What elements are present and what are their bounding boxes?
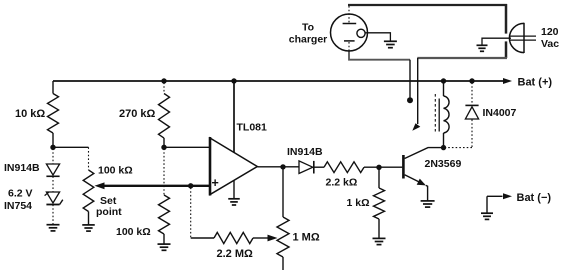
relay K1 coil [444,96,450,133]
wire R6 bottom lead [282,257,284,270]
arrow to Bat (-) [503,193,512,199]
transistor Q1 2N3569 base bar [402,155,405,179]
op-amp U1 TL081 triangle [210,138,257,195]
wire rail to relay coil [443,81,445,96]
svg-text:TL081: TL081 [237,122,268,134]
wire node B to op-amp inverting input [164,146,210,148]
connector J1 To charger (circle) [331,14,368,51]
wire node B down to R4 (dotted) [163,149,165,196]
wire D4 down (dotted) [471,120,473,148]
resistor R7 2.2 k [324,162,364,173]
potentiometer R6 1 M [277,217,289,257]
wire wiper to op-amp noninverting input (thick) [102,185,210,187]
wire AC outlet right vertical (lower) [505,41,508,58]
svg-text:10 kΩ: 10 kΩ [15,108,45,120]
wire op-amp output [257,166,299,168]
resistor R4 100 k [159,195,170,234]
wire rail to D4 (dotted) [471,83,473,105]
node rail at IN4007 [469,78,474,83]
svg-text:6.2 V: 6.2 V [8,188,33,200]
wire relay moving blade [417,58,419,124]
svg-text:point: point [96,206,122,218]
ground below set-point pot [82,224,95,226]
node noninverting input / feedback [188,183,193,188]
wire node down to R8 [378,168,380,189]
node op-amp output [280,164,285,169]
wire feedback horizontal [191,237,214,239]
wire output node down to R6 [282,167,284,217]
wire main positive rail [53,80,508,82]
node rail at 270k [161,78,166,83]
diode D4 IN4007 [465,104,478,106]
resistor R3 270 k [159,94,170,139]
wire AC outlet right vertical (upper) [505,4,508,34]
outlet P1 face (flat side) [523,23,525,53]
ground at AC outlet [477,44,488,46]
node rail at relay coil [441,78,446,83]
ground below emitter [421,200,435,202]
wire relay fixed contact lead [409,60,411,98]
wire R3 to node B [163,138,165,147]
node base drive [376,165,381,170]
transistor Q1 emitter [405,175,425,185]
relay K1 linkage (dashed) [434,94,436,132]
outlet P1 blade bottom [510,39,536,41]
svg-text:charger: charger [289,34,328,46]
ground below R8 [373,237,386,239]
diode D3 IN914B (output) [299,161,313,174]
wire J1 center pin to ground [365,33,390,41]
pot R2 wiper arrow [95,182,105,189]
wire D4 to coil node (dotted) [446,147,472,149]
resistor R1 10 k [48,94,59,133]
wire AC bottom from outlet to relay contact [417,57,507,59]
svg-text:IN914B: IN914B [287,146,323,158]
svg-text:Vac: Vac [541,38,559,50]
zener D2 6.2V IN754 [46,192,59,203]
wire down to pot R2 (dotted) [88,147,90,170]
svg-text:2N3569: 2N3569 [425,158,462,170]
svg-text:+: + [212,176,219,190]
wire R7 to base node [364,166,402,168]
node A (10k / diode junction) [50,145,55,150]
ground below zener [47,224,60,226]
connector J1 top terminal pin [343,23,357,25]
wire charger plug bottom lead [349,51,410,60]
wire rail down to R1 [52,81,54,94]
outlet P1 blade top [510,35,536,37]
wire node A to set-point pot [53,146,89,148]
resistor R5 2.2 M [214,232,253,243]
ground below op-amp [228,198,240,200]
svg-text:1 MΩ: 1 MΩ [293,232,320,244]
wire J1 bottom pin dotted [348,42,350,51]
svg-text:IN754: IN754 [4,200,32,212]
svg-text:1 kΩ: 1 kΩ [347,197,370,209]
wire Bat (-) vertical [486,196,488,213]
relay K1 core line [438,99,440,132]
wire feedback vertical (dotted) [190,188,192,239]
ground below R4 [158,243,171,245]
wire R1 to node A [52,133,54,147]
wire op-amp V+ supply [233,81,235,153]
connector J1 center pin (small circle) [357,29,365,37]
svg-text:IN4007: IN4007 [483,107,517,119]
ground at Bat (-) [481,212,493,214]
wire Bat (-) horizontal [487,195,503,197]
resistor R8 1 k [374,188,385,219]
svg-text:Bat (−): Bat (−) [517,192,552,204]
wire rail to R3 (dotted) [163,83,165,94]
svg-text:To: To [302,22,314,34]
wire op-amp V- to ground [233,180,235,198]
node rail at op-amp V+ [231,78,236,83]
svg-text:100 kΩ: 100 kΩ [98,165,133,177]
diode D1 IN914B [52,149,54,165]
arrow to Bat (+) [503,78,512,84]
svg-text:2.2 kΩ: 2.2 kΩ [326,177,358,189]
outlet P1 arc [509,23,524,52]
transistor Q1 collector [405,148,444,159]
relay K1 blade tip arrow [412,123,420,131]
wire R4 to ground [163,234,165,244]
svg-text:120: 120 [541,26,559,38]
relay K1 fixed contact dot [407,97,413,103]
connector J1 bottom terminal pin [344,40,355,42]
wire pot to ground [88,212,90,225]
svg-text:Bat (+): Bat (+) [518,77,553,89]
svg-text:2.2 MΩ: 2.2 MΩ [217,248,254,260]
node B (inverting input) [161,145,166,150]
svg-text:270 kΩ: 270 kΩ [119,108,156,120]
potentiometer R2 100 k [83,170,94,212]
ground at charger plug [384,40,397,42]
pot R6 wiper arrow [268,235,278,242]
wire zener to ground [52,205,54,225]
wire outlet ground prong [482,38,511,45]
svg-text:IN914B: IN914B [4,162,40,174]
wire R5 to pot wiper arrow [253,237,269,239]
svg-text:100 kΩ: 100 kΩ [116,226,151,238]
wire D1 to zener [52,176,54,192]
wire R8 to ground [378,219,380,238]
wire coil to collector node [443,133,445,148]
node collector / coil [441,145,446,150]
wire J1 top pin to AC line (dotted inside) [348,6,350,23]
wire AC top from charger plug to outlet [348,4,507,6]
